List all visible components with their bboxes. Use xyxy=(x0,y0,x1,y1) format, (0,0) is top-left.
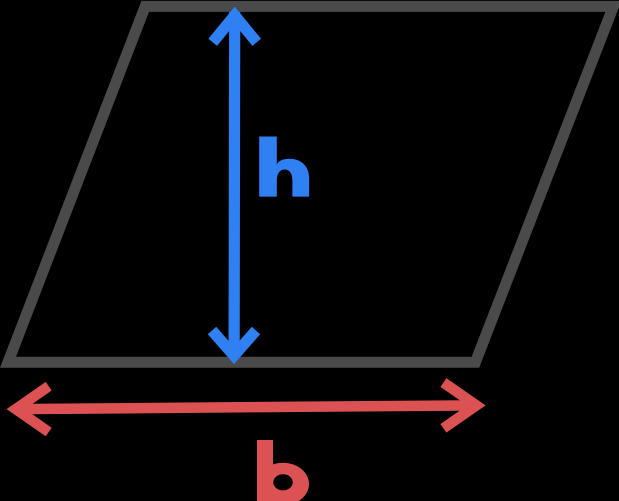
left arrowhead xyxy=(16,386,49,432)
label h xyxy=(259,137,309,197)
base arrow (red, horizontal, double-headed) xyxy=(14,383,478,433)
right arrowhead xyxy=(443,383,476,429)
wire shaft xyxy=(229,12,241,358)
height arrow (blue, vertical, double-headed) xyxy=(212,12,257,358)
label b xyxy=(257,440,309,501)
bottom arrowhead xyxy=(212,331,256,356)
top arrowhead xyxy=(213,16,257,43)
wire shaft xyxy=(14,405,478,409)
parallelogram xyxy=(8,6,613,362)
